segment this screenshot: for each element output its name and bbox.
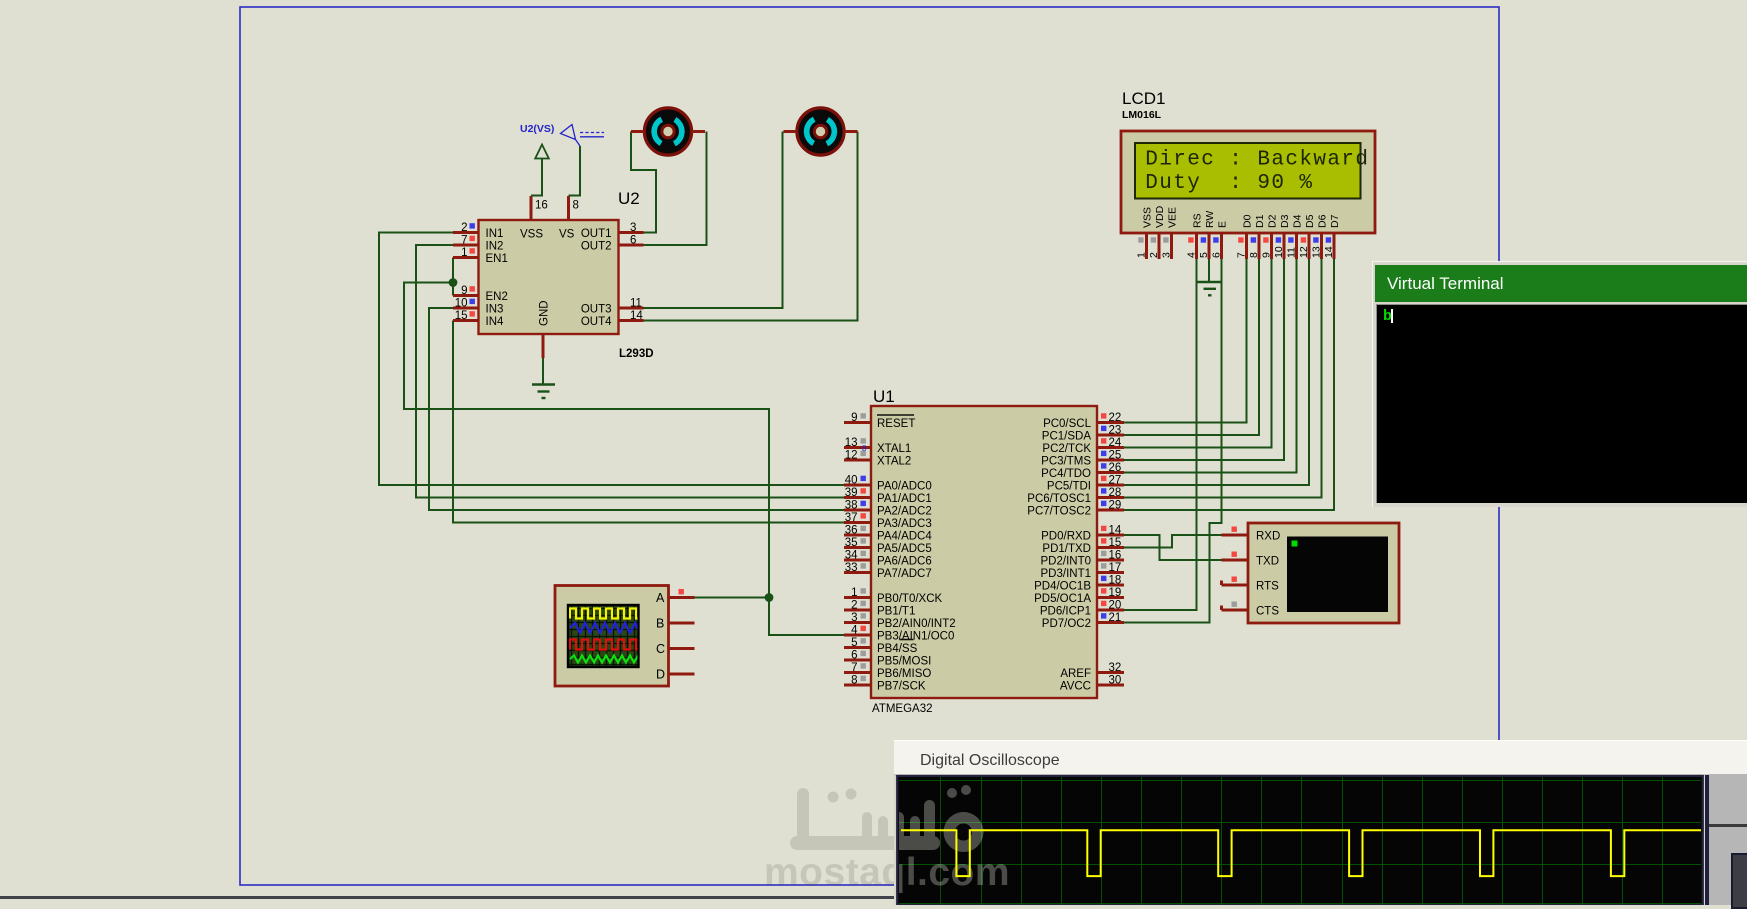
svg-text:D: D [656, 667, 665, 681]
U2 pin 3 OUT1 [581, 222, 644, 240]
LCD pin 12 D5 [1298, 214, 1316, 259]
svg-text:12: 12 [1298, 246, 1310, 258]
U1 pin 26 PC4/TDO [1041, 462, 1124, 480]
svg-text:PB7/SCK: PB7/SCK [877, 681, 926, 693]
svg-text:25: 25 [1109, 450, 1122, 462]
LCD pin 6 E [1211, 221, 1229, 259]
svg-text:PB1/T1: PB1/T1 [877, 606, 915, 618]
svg-text:CTS: CTS [1256, 605, 1279, 617]
wire LCD D2 to PC2 [1124, 259, 1272, 448]
Virtual Terminal screen [1376, 304, 1747, 503]
wire IN4 to PA3 [453, 321, 844, 523]
U1 pin 37 PA3/ADC3 [844, 512, 932, 530]
svg-text:PD0/RXD: PD0/RXD [1041, 531, 1091, 543]
svg-text:15: 15 [1109, 537, 1122, 549]
U2 pin 14 OUT4 [581, 310, 644, 328]
svg-text:7: 7 [851, 662, 857, 674]
svg-text:PD3/INT1: PD3/INT1 [1041, 568, 1092, 580]
svg-text:PA5/ADC5: PA5/ADC5 [877, 543, 932, 555]
svg-text:28: 28 [1109, 487, 1122, 499]
U1 pin 17 PD3/INT1 [1041, 562, 1125, 580]
wire PD1 to terminal RXD [1124, 535, 1222, 548]
U1 pin 33 PA7/ADC7 [844, 562, 932, 580]
wire LCD D5 to PC5 [1124, 259, 1309, 485]
svg-text:ATMEGA32: ATMEGA32 [872, 703, 933, 715]
svg-text:9: 9 [461, 285, 467, 297]
wire IN1 to PA0 [379, 233, 844, 486]
svg-text:27: 27 [1109, 475, 1122, 487]
svg-text:11: 11 [630, 298, 642, 310]
terminal pin RXD [1222, 527, 1281, 543]
U1 pin 9 RESET [844, 412, 915, 430]
svg-text:Direc : Backward: Direc : Backward [1145, 148, 1369, 171]
svg-text:29: 29 [1109, 500, 1122, 512]
svg-text:23: 23 [1109, 425, 1122, 437]
svg-text:18: 18 [1109, 575, 1122, 587]
svg-text:15: 15 [455, 310, 468, 322]
svg-text:LM016L: LM016L [1122, 109, 1162, 121]
svg-text:D0: D0 [1242, 214, 1254, 228]
watermark ghost (on canvas) [764, 785, 1010, 894]
U1 pin 29 PC7/TOSC2 [1027, 500, 1124, 518]
Digital Oscilloscope window [894, 740, 1747, 905]
svg-text:D2: D2 [1267, 214, 1279, 228]
U1 pin 28 PC6/TOSC1 [1027, 487, 1124, 505]
svg-text:L293D: L293D [619, 348, 654, 360]
LCD screen [1135, 143, 1361, 199]
svg-text:D4: D4 [1292, 214, 1304, 228]
U2 pin 6 OUT2 [581, 235, 644, 253]
svg-text:D3: D3 [1279, 214, 1291, 228]
svg-text:PA4/ADC4: PA4/ADC4 [877, 531, 932, 543]
U1 pin 39 PA1/ADC1 [844, 487, 932, 505]
LCD pin 2 VDD [1148, 205, 1166, 259]
terminal text [1383, 308, 1392, 325]
U1 pin 35 PA5/ADC5 [844, 537, 932, 555]
svg-text:RXD: RXD [1256, 530, 1280, 542]
svg-text:PC1/SDA: PC1/SDA [1042, 431, 1092, 443]
ground under LCD RW [1198, 282, 1223, 295]
svg-text:PD2/INT0: PD2/INT0 [1041, 556, 1092, 568]
wire LCD D1 to PC1 [1124, 259, 1259, 435]
svg-text:4: 4 [1186, 252, 1198, 258]
svg-text:30: 30 [1109, 675, 1122, 687]
svg-text:PC5/TDI: PC5/TDI [1047, 481, 1091, 493]
U1 pin 13 XTAL1 [844, 437, 911, 455]
U2 pin 15 IN4 [453, 310, 504, 328]
svg-text:PB2/AIN0/INT2: PB2/AIN0/INT2 [877, 618, 956, 630]
oscilloscope component body [555, 586, 669, 687]
U1 pin 7 PB6/MISO [844, 662, 931, 680]
svg-text:32: 32 [1109, 662, 1122, 674]
svg-text:4: 4 [851, 625, 858, 637]
U1 pin 5 PB4/SS [844, 637, 918, 655]
wire scope A tap [695, 597, 770, 599]
svg-text:PD1/TXD: PD1/TXD [1042, 543, 1091, 555]
LCD pin 5 RW [1198, 211, 1216, 259]
U1 pin 25 PC3/TMS [1041, 450, 1124, 468]
svg-text:PC7/TOSC2: PC7/TOSC2 [1027, 506, 1091, 518]
svg-text:14: 14 [1109, 525, 1122, 537]
U1 pin 40 PA0/ADC0 [844, 475, 932, 493]
U1 pin 21 PD7/OC2 [1042, 612, 1124, 630]
svg-text:36: 36 [845, 525, 858, 537]
U1 pin 36 PA4/ADC4 [844, 525, 932, 543]
svg-text:3: 3 [851, 612, 857, 624]
svg-text:B: B [656, 616, 664, 630]
svg-text:3: 3 [630, 222, 636, 234]
svg-text:E: E [1217, 221, 1229, 228]
U2 pin 10 IN3 [453, 298, 503, 316]
svg-text:EN2: EN2 [486, 291, 508, 303]
svg-text:14: 14 [630, 310, 643, 322]
svg-text:5: 5 [851, 637, 857, 649]
svg-text:8: 8 [862, 444, 867, 453]
svg-text:VSS: VSS [520, 228, 543, 240]
wire EN1-EN2 tie [452, 258, 454, 296]
svg-text:11: 11 [1286, 247, 1298, 258]
svg-text:PA1/ADC1: PA1/ADC1 [877, 493, 932, 505]
wire OUT2 to motor M1 right [644, 132, 707, 246]
junction EN1/EN2 [449, 278, 458, 287]
svg-text:6: 6 [1211, 252, 1223, 258]
terminal pin TXD [1222, 552, 1280, 568]
svg-text:PC6/TOSC1: PC6/TOSC1 [1027, 493, 1091, 505]
wire LCD RS to PD6 [1124, 259, 1197, 610]
svg-text:17: 17 [1109, 562, 1122, 574]
LCD LM016L body [1121, 131, 1375, 233]
wire LCD D6 to PC6 [1124, 259, 1322, 498]
motor M1 [631, 108, 705, 155]
svg-text:AVCC: AVCC [1060, 681, 1091, 693]
terminal pin CTS [1222, 602, 1280, 618]
svg-text:1: 1 [1136, 252, 1148, 258]
LCD pin 1 VSS [1136, 207, 1154, 259]
svg-text:PB4/SS: PB4/SS [877, 643, 918, 655]
svg-text:21: 21 [1109, 612, 1122, 624]
svg-text:VS: VS [559, 228, 575, 240]
U2 pin 7 IN2 [453, 235, 503, 253]
U2 pin 11 OUT3 [581, 298, 644, 316]
wire OUT4 to motor M2 right [644, 132, 858, 321]
U1 pin 3 PB2/AIN0/INT2 [844, 612, 956, 630]
svg-text:33: 33 [845, 562, 858, 574]
U1 pin 32 AREF [1060, 662, 1124, 680]
U2 pin 9 EN2 [453, 285, 508, 303]
terminal pin RTS [1222, 577, 1280, 593]
virtual terminal mini screen [1287, 537, 1388, 613]
svg-text:OUT1: OUT1 [581, 228, 612, 240]
svg-text:13: 13 [1311, 246, 1323, 258]
svg-text:U2: U2 [618, 189, 640, 208]
svg-text:40: 40 [845, 475, 858, 487]
wire IN2 to PA1 [416, 245, 844, 498]
svg-text:D7: D7 [1329, 214, 1341, 228]
svg-text:PD6/ICP1: PD6/ICP1 [1040, 606, 1091, 618]
svg-text:PD5/OC1A: PD5/OC1A [1034, 593, 1091, 605]
svg-text:37: 37 [845, 512, 858, 524]
oscilloscope pin C [656, 642, 695, 656]
svg-text:U1: U1 [873, 387, 895, 406]
svg-text:PB0/T0/XCK: PB0/T0/XCK [877, 593, 943, 605]
wire LCD RW stub to ground [1208, 259, 1210, 281]
svg-text:OUT3: OUT3 [581, 304, 612, 316]
U2 pin 2 IN1 [453, 222, 503, 240]
svg-text:12: 12 [845, 450, 858, 462]
wire PD0 to terminal TXD [1124, 535, 1222, 560]
svg-text:EN1: EN1 [486, 253, 508, 265]
svg-text:D1: D1 [1254, 214, 1266, 228]
svg-text:7: 7 [1236, 252, 1248, 258]
U1 pin 18 PD4/OC1B [1034, 575, 1124, 593]
U1 pin 34 PA6/ADC6 [844, 550, 932, 568]
svg-text:RTS: RTS [1256, 580, 1279, 592]
LCD pin 13 D6 [1311, 214, 1329, 259]
svg-text:VDD: VDD [1154, 205, 1166, 228]
svg-text:1: 1 [851, 587, 857, 599]
U1 pin 20 PD6/ICP1 [1040, 600, 1124, 618]
U2 pin 8 VS [559, 196, 579, 240]
svg-text:PA7/ADC7: PA7/ADC7 [877, 568, 932, 580]
svg-text:39: 39 [845, 487, 858, 499]
wire LCD D3 to PC3 [1124, 259, 1284, 460]
op-chip U2 L293D body [479, 220, 619, 334]
svg-text:U2(VS): U2(VS) [520, 123, 554, 135]
svg-text:mostaql.com: mostaql.com [894, 851, 1010, 894]
svg-text:D6: D6 [1317, 214, 1329, 228]
svg-text:22: 22 [1109, 412, 1122, 424]
LCD pin 7 D0 [1236, 214, 1254, 259]
LCD pin 3 VEE [1161, 207, 1179, 259]
wire LCD D7 to PC7 [1124, 259, 1334, 510]
svg-text:35: 35 [845, 537, 858, 549]
XTAL1 blue mark [862, 444, 867, 453]
U1 pin 15 PD1/TXD [1042, 537, 1124, 555]
svg-text:2: 2 [461, 222, 467, 234]
svg-text:IN4: IN4 [486, 316, 505, 328]
svg-text:PC0/SCL: PC0/SCL [1043, 418, 1092, 430]
wire IN3 to PA2 [429, 308, 844, 510]
svg-text:8: 8 [1248, 252, 1260, 258]
svg-text:2: 2 [1148, 252, 1160, 258]
LCD pin 14 D7 [1323, 214, 1341, 259]
U1 pin 4 PB3/AIN1/OC0 [844, 625, 954, 643]
svg-text:24: 24 [1109, 437, 1122, 449]
svg-text:PD4/OC1B: PD4/OC1B [1034, 581, 1091, 593]
svg-text:RW: RW [1204, 211, 1216, 228]
wire EN net to PB3/OC0 [404, 283, 844, 636]
svg-text:PD7/OC2: PD7/OC2 [1042, 618, 1091, 630]
svg-text:PB6/MISO: PB6/MISO [877, 668, 931, 680]
oscilloscope pin D [656, 667, 695, 681]
svg-text:8: 8 [851, 675, 857, 687]
oscilloscope plot [894, 740, 1747, 905]
ground under U2 [532, 334, 555, 398]
svg-text:C: C [656, 642, 665, 656]
svg-text:PC4/TDO: PC4/TDO [1041, 468, 1091, 480]
svg-text:PC2/TCK: PC2/TCK [1042, 443, 1091, 455]
svg-text:38: 38 [845, 500, 858, 512]
svg-text:26: 26 [1109, 462, 1122, 474]
oscilloscope mini screen [568, 605, 642, 667]
junction scope A [765, 593, 774, 602]
LCD pin 8 D1 [1248, 214, 1266, 259]
MCU U1 ATMEGA32 body [871, 406, 1097, 698]
svg-text:1: 1 [461, 247, 467, 259]
U1 pin 30 AVCC [1060, 675, 1124, 693]
svg-text:XTAL1: XTAL1 [877, 443, 911, 455]
svg-text:PA3/ADC3: PA3/ADC3 [877, 518, 932, 530]
svg-text:RESET: RESET [877, 418, 915, 430]
U1 pin 2 PB1/T1 [844, 600, 915, 618]
svg-text:2: 2 [851, 600, 857, 612]
U1 pin 38 PA2/ADC2 [844, 500, 932, 518]
svg-text:16: 16 [1109, 550, 1122, 562]
wire LCD D4 to PC4 [1124, 259, 1297, 473]
svg-text:6: 6 [630, 235, 636, 247]
LCD pin 9 D2 [1261, 214, 1279, 259]
U1 pin 23 PC1/SDA [1042, 425, 1124, 443]
Virtual Terminal title bar [1375, 265, 1747, 302]
svg-text:7: 7 [461, 235, 467, 247]
U1 pin 19 PD5/OC1A [1034, 587, 1124, 605]
svg-text:IN1: IN1 [486, 228, 504, 240]
U2 pin 1 EN1 [453, 247, 508, 265]
svg-text:Duty : 90 %: Duty : 90 % [1145, 172, 1313, 195]
svg-text:D5: D5 [1304, 214, 1316, 228]
schematic sheet border [240, 7, 1499, 885]
wire LCD D0 to PC0 [1124, 259, 1247, 423]
U1 pin 12 XTAL2 [844, 450, 911, 468]
svg-text:16: 16 [535, 200, 548, 212]
wire LCD E to PD7 [1124, 259, 1222, 623]
svg-text:13: 13 [845, 437, 858, 449]
svg-text:PA2/ADC2: PA2/ADC2 [877, 506, 932, 518]
svg-text:LCD1: LCD1 [1122, 89, 1165, 108]
svg-text:IN2: IN2 [486, 241, 504, 253]
status bar line [0, 896, 1747, 899]
U1 pin 14 PD0/RXD [1041, 525, 1124, 543]
svg-text:14: 14 [1323, 246, 1335, 258]
svg-text:8: 8 [573, 200, 579, 212]
oscilloscope pin A [656, 589, 695, 605]
svg-text:A: A [656, 591, 665, 605]
U2 pin 16 VSS [520, 196, 548, 240]
power flag label U2(VS) [520, 123, 604, 196]
oscilloscope pin B [656, 616, 695, 630]
svg-text:GND: GND [539, 300, 551, 326]
U1 pin 1 PB0/T0/XCK [844, 587, 943, 605]
Virtual Terminal window [1372, 261, 1747, 507]
svg-text:PB5/MOSI: PB5/MOSI [877, 656, 931, 668]
svg-text:5: 5 [1198, 252, 1210, 258]
U1 pin 8 PB7/SCK [844, 675, 926, 693]
U1 pin 27 PC5/TDI [1047, 475, 1124, 493]
oscilloscope title bar [894, 740, 1747, 775]
svg-text:10: 10 [1273, 246, 1285, 258]
svg-text:9: 9 [851, 412, 857, 424]
U1 pin 6 PB5/MOSI [844, 650, 931, 668]
svg-text:9: 9 [1261, 252, 1273, 258]
svg-text:19: 19 [1109, 587, 1122, 599]
svg-text:3: 3 [1161, 252, 1173, 258]
svg-text:VSS: VSS [1142, 207, 1154, 228]
svg-text:IN3: IN3 [486, 304, 504, 316]
LCD pin 11 D4 [1286, 214, 1304, 259]
LCD pin 10 D3 [1273, 214, 1291, 259]
svg-text:6: 6 [851, 650, 857, 662]
power symbol U2(VS) arrow [531, 145, 549, 196]
U1 pin 24 PC2/TCK [1042, 437, 1124, 455]
svg-text:OUT2: OUT2 [581, 241, 612, 253]
svg-text:RS: RS [1192, 213, 1204, 228]
svg-text:34: 34 [845, 550, 858, 562]
svg-text:XTAL2: XTAL2 [877, 456, 911, 468]
svg-text:PA0/ADC0: PA0/ADC0 [877, 481, 932, 493]
svg-text:10: 10 [455, 298, 468, 310]
svg-text:OUT4: OUT4 [581, 316, 612, 328]
svg-text:TXD: TXD [1256, 555, 1279, 567]
svg-text:PB3/AIN1/OC0: PB3/AIN1/OC0 [877, 631, 954, 643]
svg-text:AREF: AREF [1060, 668, 1091, 680]
oscilloscope right control panel [1705, 775, 1709, 905]
wire OUT3 to motor M2 left [644, 132, 783, 309]
virtual terminal component body [1248, 523, 1399, 623]
U1 pin 22 PC0/SCL [1043, 412, 1124, 430]
svg-text:VEE: VEE [1167, 207, 1179, 228]
LCD pin 4 RS [1186, 213, 1204, 259]
svg-text:PA6/ADC6: PA6/ADC6 [877, 556, 932, 568]
wire OUT1 to motor M1 left [631, 132, 656, 233]
svg-text:PC3/TMS: PC3/TMS [1041, 456, 1091, 468]
motor M2 [784, 108, 858, 155]
U1 pin 16 PD2/INT0 [1041, 550, 1125, 568]
svg-text:20: 20 [1109, 600, 1122, 612]
